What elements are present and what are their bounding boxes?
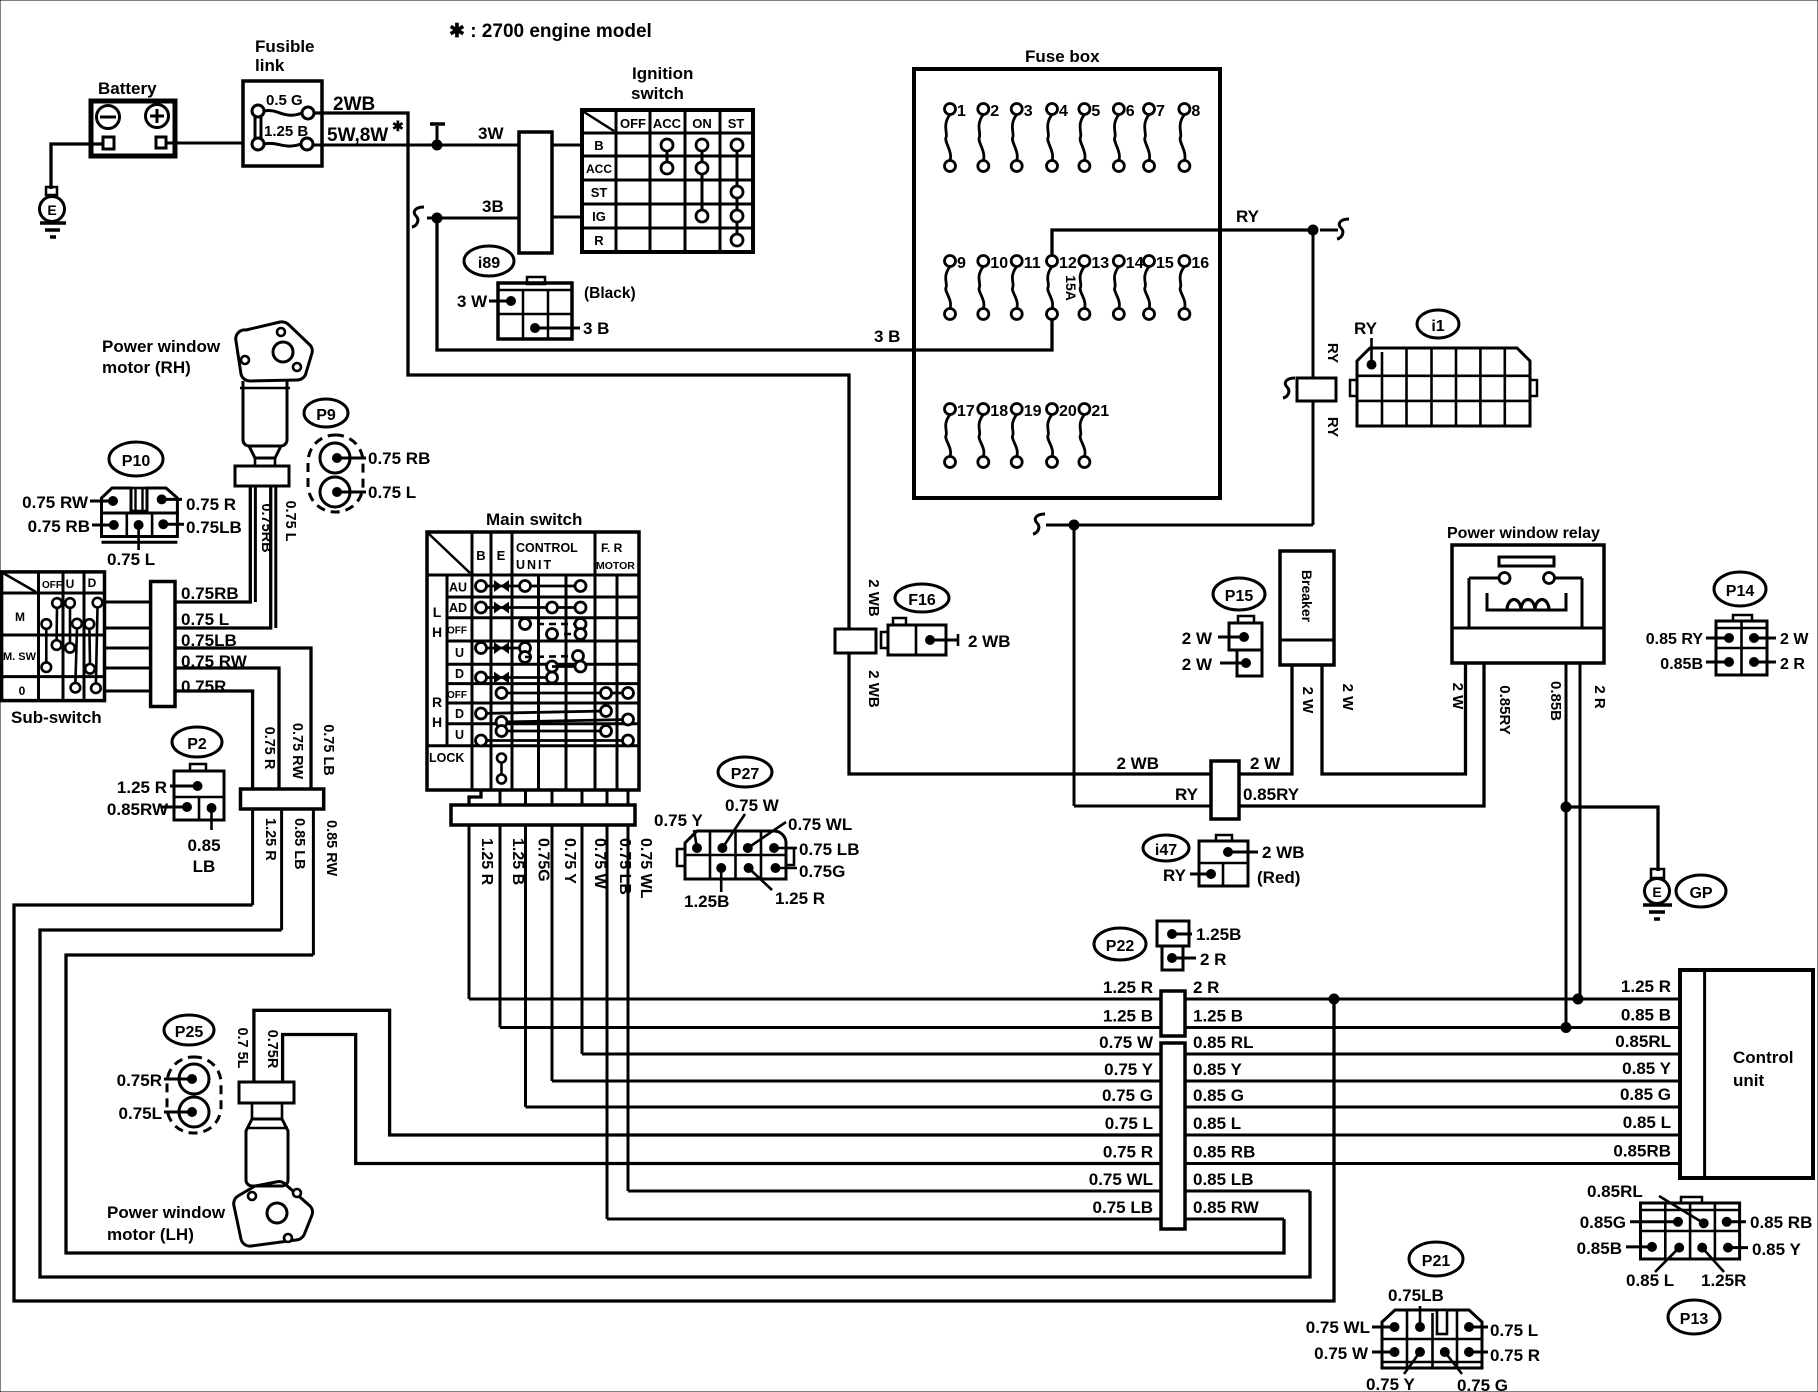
svg-text:Power window: Power window [107,1203,226,1222]
svg-text:0.85: 0.85 [187,836,220,855]
svg-text:P13: P13 [1680,1311,1709,1328]
svg-text:Fusible: Fusible [255,37,315,56]
svg-text:0.75LB: 0.75LB [186,518,242,537]
wire battery negative to ground [51,144,103,189]
wire RY down to connector [1073,525,1076,806]
connector P27 [718,757,772,787]
svg-text:0.85 RL: 0.85 RL [1193,1033,1253,1052]
svg-text:0.75 L: 0.75 L [282,500,298,541]
connector bar below P2 [241,789,324,809]
svg-text:Sub-switch: Sub-switch [11,708,102,727]
wire 0.75 Y from main switch [551,825,554,1081]
svg-text:B: B [594,138,603,153]
svg-text:0.85 G: 0.85 G [1193,1086,1244,1105]
svg-text:0.75 W: 0.75 W [1314,1344,1369,1363]
svg-text:L: L [433,604,442,620]
svg-text:3 B: 3 B [874,327,900,346]
svg-text:1.25B: 1.25B [1196,925,1241,944]
svg-text:0.85RB: 0.85RB [1613,1142,1671,1161]
svg-text:0.75L: 0.75L [119,1104,162,1123]
fuses 9-16 [945,256,956,267]
svg-text:0.75G: 0.75G [535,838,552,882]
junction 0.85B joins line2 [1561,1023,1571,1033]
svg-text:2 W: 2 W [1449,683,1466,711]
svg-text:5: 5 [1091,103,1100,120]
relay wire 2W [1464,663,1467,774]
wire 0.75 LB from main switch [606,825,609,1219]
svg-text:2 W: 2 W [1182,655,1213,674]
svg-text:0: 0 [19,684,26,698]
svg-text:0.85 Y: 0.85 Y [1193,1060,1243,1079]
ignition contacts ON column [701,145,704,216]
svg-text:ACC: ACC [586,162,612,176]
central connector (2WB-2W / RY-0.85RY) [1211,761,1239,819]
svg-text:0.75 W: 0.75 W [725,796,780,815]
svg-text:1.25 R: 1.25 R [262,818,278,861]
svg-text:6: 6 [1126,103,1135,120]
svg-text:0.85 RB: 0.85 RB [1750,1213,1812,1232]
svg-text:RY: RY [1236,207,1260,226]
wire 0.75G from main switch [524,825,527,1107]
svg-text:0.7 5L: 0.7 5L [234,1027,250,1068]
connector P22 [1094,928,1146,960]
branch symbol (to other circuit) [436,126,439,145]
svg-text:1.25 R: 1.25 R [478,838,495,886]
svg-text:0.85B: 0.85B [1547,681,1564,721]
junction main feed [432,140,442,150]
relay wire 0.85RY [1483,663,1486,806]
svg-text:RY: RY [1354,319,1378,338]
svg-text:0.85B: 0.85B [1577,1239,1622,1258]
svg-text:0.75 G: 0.75 G [1102,1086,1153,1105]
svg-text:0.85 LB: 0.85 LB [291,818,307,870]
sub-switch connector strip [151,582,175,707]
svg-text:i1: i1 [1431,318,1444,335]
svg-text:21: 21 [1091,403,1109,420]
svg-text:Fuse box: Fuse box [1025,47,1100,66]
svg-text:M: M [15,610,25,624]
main switch contacts row OFF LH [525,623,581,626]
svg-text:0.75 R: 0.75 R [186,495,236,514]
wire 1.25 R from main switch [468,825,471,999]
svg-text:motor (RH): motor (RH) [102,358,191,377]
svg-text:Main switch: Main switch [486,510,582,529]
wires sub-switch to strip [105,601,151,604]
svg-text:P21: P21 [1422,1253,1451,1270]
svg-text:12: 12 [1059,255,1077,272]
ground E (battery) [46,187,57,195]
bus line 8: 0.75 WL / 0.85 LB [628,1190,1310,1193]
svg-text:P25: P25 [175,1024,204,1041]
fuses 17-21 [945,404,956,415]
junction 2R vertical joins line1 [1329,994,1339,1004]
svg-text:0.75 RB: 0.75 RB [28,517,90,536]
main switch contacts row OFF RH [502,692,629,695]
svg-text:P2: P2 [187,736,207,753]
svg-text:RY: RY [1175,785,1199,804]
fusible link [243,81,322,166]
svg-text:0.85 RW: 0.85 RW [1193,1198,1260,1217]
svg-text:CONTROL: CONTROL [516,541,578,555]
connector on RY wire [1283,378,1295,398]
svg-text:2 W: 2 W [1299,687,1316,715]
svg-text:1.25R: 1.25R [1701,1271,1746,1290]
svg-text:0.75 RW: 0.75 RW [22,493,89,512]
svg-text:ACC: ACC [653,116,682,131]
svg-text:18: 18 [990,403,1008,420]
svg-text:D: D [88,576,97,590]
svg-text:0.85G: 0.85G [1580,1213,1626,1232]
svg-text:0.85 Y: 0.85 Y [1622,1059,1672,1078]
svg-text:0.85 B: 0.85 B [1621,1006,1671,1025]
svg-text:0.75 G: 0.75 G [1457,1376,1508,1392]
svg-text:3B: 3B [482,197,504,216]
connector i89 [464,246,514,276]
svg-text:2 WB: 2 WB [865,579,882,617]
svg-text:E: E [497,548,506,563]
svg-text:U: U [455,728,464,742]
svg-text:Ignition: Ignition [632,64,693,83]
svg-text:P15: P15 [1225,588,1254,605]
svg-text:0.75 L: 0.75 L [368,483,416,502]
svg-text:1.25 B: 1.25 B [1103,1007,1153,1026]
svg-text:MOTOR: MOTOR [596,560,635,572]
svg-text:✱ : 2700 engine model: ✱ : 2700 engine model [449,21,652,42]
svg-text:0.85RY: 0.85RY [1496,685,1513,734]
wire 2WB to central connector [849,653,1211,774]
svg-text:1.25B: 1.25B [684,892,729,911]
svg-text:0.75 RW: 0.75 RW [289,723,305,779]
svg-text:0.85RY: 0.85RY [1243,785,1300,804]
svg-text:LB: LB [193,857,216,876]
wire 0.85LB down-left (path B) [280,809,283,930]
main switch contacts row U RH [502,730,607,733]
svg-text:P9: P9 [316,407,336,424]
svg-text:OFF: OFF [447,626,467,637]
main switch contacts row AD [481,606,581,609]
svg-text:0.75 Y: 0.75 Y [1366,1375,1416,1392]
svg-text:Battery: Battery [98,79,157,98]
main switch connector bar [451,805,635,825]
ignition contacts ACC column [666,145,669,168]
svg-text:1.25 R: 1.25 R [117,778,167,797]
ignition switch connector [519,132,552,253]
breaker [1280,551,1334,665]
svg-text:13: 13 [1091,255,1109,272]
wire 0.75L from LH motor to line 6 [254,1010,1161,1135]
svg-text:OFF: OFF [620,116,646,131]
wire battery positive to fusible link [166,142,243,145]
svg-text:ST: ST [591,185,608,200]
relay wire 0.85B [1565,663,1568,1028]
svg-text:(Red): (Red) [1257,868,1300,887]
ignition contacts ST column [736,145,739,240]
svg-text:0.75 WL: 0.75 WL [1089,1170,1153,1189]
svg-text:U: U [455,646,464,660]
wire 2WB battery feed down-right [408,145,849,629]
wire 1.25 B from main switch [499,825,502,1028]
svg-text:2 W: 2 W [1780,631,1809,648]
connector i47 [1143,835,1189,861]
svg-text:7: 7 [1156,103,1165,120]
svg-text:RY: RY [1324,343,1341,363]
svg-text:2 WB: 2 WB [865,670,882,708]
svg-text:0.75 WL: 0.75 WL [637,838,654,899]
svg-text:LOCK: LOCK [429,751,464,765]
svg-text:0.75 R: 0.75 R [1103,1143,1153,1162]
svg-text:IG: IG [592,209,606,224]
svg-text:P22: P22 [1106,938,1135,955]
bus line 9: 0.75 LB / 0.85 RW [607,1218,1284,1221]
wire 0.85RW down-left (path C) [312,809,315,955]
svg-text:5W,8W: 5W,8W [327,125,388,146]
bus line 1: 1.25 R / 2 R [469,998,1680,1001]
wire 0.75R from LH motor to line 7 [283,1035,1161,1164]
svg-text:Control: Control [1733,1048,1793,1067]
svg-text:UNIT: UNIT [516,558,553,572]
wire 3B down and to fuse box [437,218,1052,350]
svg-text:0.75LB: 0.75LB [1388,1286,1444,1305]
svg-text:3W: 3W [478,124,504,143]
wire to ground GP [1566,807,1658,871]
svg-text:0.85RL: 0.85RL [1587,1182,1643,1201]
svg-text:unit: unit [1733,1071,1764,1090]
svg-text:0.75 Y: 0.75 Y [1104,1060,1154,1079]
connector i1 [1417,310,1459,338]
fuses 1-8 [945,104,956,115]
svg-text:1.25 R: 1.25 R [1621,977,1671,996]
connector P14 [1714,572,1766,606]
svg-text:i89: i89 [478,255,500,272]
svg-text:3 W: 3 W [457,292,488,311]
svg-text:R: R [594,233,604,248]
svg-text:2 WB: 2 WB [1117,754,1160,773]
svg-text:Power window relay: Power window relay [1447,525,1600,542]
wire RY vertical [1312,230,1315,378]
svg-text:2 WB: 2 WB [968,632,1011,651]
bus line 2: 1.25 B / 1.25 B [500,1026,1680,1029]
ground GP [1651,869,1664,878]
connector P21 [1409,1242,1463,1276]
svg-text:0.85 L: 0.85 L [1623,1113,1671,1132]
svg-text:1.25 B: 1.25 B [509,838,526,885]
svg-text:3 B: 3 B [583,319,609,338]
wires main switch to connector bar [469,790,481,805]
svg-text:0.75 Y: 0.75 Y [654,811,704,830]
svg-text:0.75 LB: 0.75 LB [616,838,633,895]
svg-text:11: 11 [1024,255,1041,272]
svg-text:1.25 B: 1.25 B [264,123,308,140]
central bus connector strips [1161,991,1185,1036]
svg-text:0.85 Y: 0.85 Y [1752,1240,1802,1259]
svg-text:M. SW: M. SW [3,651,37,663]
svg-text:E: E [47,202,56,218]
svg-text:0.75 R: 0.75 R [261,727,277,770]
svg-text:ST: ST [728,116,745,131]
svg-text:R: R [432,694,442,710]
connector F16 [895,584,949,612]
svg-text:0.75 WL: 0.75 WL [1306,1318,1370,1337]
svg-text:RY: RY [1163,866,1187,885]
connector P10 [109,442,163,476]
svg-text:0.75 W: 0.75 W [591,838,608,890]
svg-text:2 W: 2 W [1182,629,1213,648]
svg-text:B: B [476,548,485,563]
svg-text:0.85 L: 0.85 L [1193,1114,1241,1133]
wire 1.25R down-left (path A) [251,809,254,905]
svg-text:9: 9 [957,255,966,272]
wire 0.75 W from main switch [581,825,584,1054]
svg-text:OFF: OFF [447,690,467,701]
svg-text:8: 8 [1191,103,1200,120]
svg-text:16: 16 [1191,255,1209,272]
svg-text:0.75 L: 0.75 L [107,550,155,569]
svg-text:(Black): (Black) [584,285,636,302]
svg-text:10: 10 [990,255,1008,272]
svg-text:2 R: 2 R [1193,978,1219,997]
svg-text:F16: F16 [908,592,936,609]
svg-text:✱: ✱ [392,118,404,134]
svg-text:0.75 L: 0.75 L [181,610,229,629]
svg-text:1.25 R: 1.25 R [1103,978,1153,997]
bus line 7: 0.75 R / 0.85 RB [356,1162,1680,1165]
svg-text:0.85RW: 0.85RW [107,800,169,819]
svg-text:ON: ON [692,116,712,131]
svg-text:2 W: 2 W [1339,684,1356,712]
svg-text:17: 17 [957,403,975,420]
svg-text:P27: P27 [731,766,760,783]
svg-text:0.75 LB: 0.75 LB [320,724,336,776]
connector P2 [172,727,222,757]
svg-text:switch: switch [631,84,684,103]
svg-text:1.25 B: 1.25 B [1193,1007,1243,1026]
svg-text:0.85 G: 0.85 G [1620,1085,1671,1104]
wire RY horizontal to branch [1046,524,1313,527]
svg-text:2: 2 [990,103,999,120]
control unit [1680,970,1813,1178]
svg-text:0.75 RB: 0.75 RB [368,449,430,468]
svg-text:0.75 W: 0.75 W [1099,1033,1154,1052]
svg-text:2 W: 2 W [1250,754,1281,773]
main switch contacts row AU [481,585,581,588]
svg-text:P14: P14 [1726,583,1755,600]
wire RY from fuse 12 [1052,230,1313,255]
svg-text:0.75 Y: 0.75 Y [561,838,578,884]
svg-text:4: 4 [1059,103,1068,120]
main switch contacts row U LH [481,647,525,650]
svg-text:15: 15 [1156,255,1174,272]
svg-text:OFF: OFF [42,580,62,591]
svg-text:AU: AU [449,581,467,595]
svg-text:0.85 RY: 0.85 RY [1646,631,1704,648]
wire 2W connector to breaker [1239,666,1292,774]
svg-text:0.85 RW: 0.85 RW [323,820,339,876]
svg-text:0.85 RB: 0.85 RB [1193,1143,1255,1162]
main switch contacts row D LH [481,676,552,679]
svg-text:RY: RY [1324,417,1341,437]
svg-text:1.25 R: 1.25 R [775,889,825,908]
svg-text:0.75 LB: 0.75 LB [1093,1198,1153,1217]
svg-text:motor (LH): motor (LH) [107,1225,194,1244]
svg-text:link: link [255,56,285,75]
svg-text:i47: i47 [1155,842,1177,859]
connector P9 [304,399,348,427]
svg-text:0.75 R: 0.75 R [1490,1346,1540,1365]
svg-text:D: D [455,707,464,721]
svg-text:0.75 L: 0.75 L [1105,1114,1153,1133]
svg-text:2 WB: 2 WB [1262,843,1305,862]
svg-text:0.75R: 0.75R [117,1071,162,1090]
svg-text:0.85RL: 0.85RL [1615,1032,1671,1051]
svg-text:14: 14 [1126,255,1144,272]
main switch LOCK contact [497,754,506,763]
svg-text:0.75 WL: 0.75 WL [788,815,852,834]
svg-text:H: H [432,714,442,730]
bus line 5: 0.75 G / 0.85 G [526,1106,1681,1109]
svg-text:0.75RB: 0.75RB [181,584,239,603]
svg-text:GP: GP [1689,885,1712,902]
svg-text:Breaker: Breaker [1299,570,1315,623]
wire 0.75 WL from main switch [627,825,630,1191]
svg-text:0.85 L: 0.85 L [1626,1271,1674,1290]
svg-text:0.85B: 0.85B [1660,656,1703,673]
wire 0.85RY connector to relay [1239,663,1484,806]
wire 3B to ignition switch [412,207,424,227]
svg-text:0.75 L: 0.75 L [1490,1321,1538,1340]
svg-text:0.5 G: 0.5 G [266,92,303,109]
svg-text:0.85 LB: 0.85 LB [1193,1170,1253,1189]
svg-text:H: H [432,624,442,640]
svg-text:2 R: 2 R [1780,656,1805,673]
bus line 4: 0.75 Y / 0.85 Y [552,1080,1680,1083]
svg-text:0.75G: 0.75G [799,862,845,881]
svg-text:AD: AD [449,601,467,615]
connector P25 [164,1015,214,1045]
svg-text:E: E [1652,884,1661,900]
bus line 3: 0.75 W / 0.85 RL [582,1053,1680,1056]
connector P15 [1213,578,1265,610]
svg-text:U: U [66,577,75,591]
sub-switch contacts [52,598,62,608]
svg-text:0.75R: 0.75R [264,1030,280,1069]
svg-text:F. R: F. R [601,541,623,555]
svg-text:2 R: 2 R [1200,950,1226,969]
svg-text:19: 19 [1024,403,1042,420]
svg-text:3: 3 [1024,103,1033,120]
svg-text:15A: 15A [1063,275,1079,301]
svg-text:20: 20 [1059,403,1077,420]
svg-text:0.75R: 0.75R [181,677,226,696]
svg-text:0.75 LB: 0.75 LB [799,840,859,859]
bus line 6: 0.75 L / 0.85 L [390,1134,1680,1137]
relay wire 2R [1579,663,1582,998]
wire 2W breaker to relay [1322,663,1466,774]
svg-text:P10: P10 [122,453,151,470]
svg-text:1: 1 [957,103,966,120]
svg-text:2 R: 2 R [1591,685,1608,709]
svg-text:Power window: Power window [102,337,221,356]
battery [91,101,175,156]
main switch contacts row D RH [481,711,606,714]
inline connector on 2WB wire [835,629,876,653]
svg-text:D: D [455,667,464,681]
